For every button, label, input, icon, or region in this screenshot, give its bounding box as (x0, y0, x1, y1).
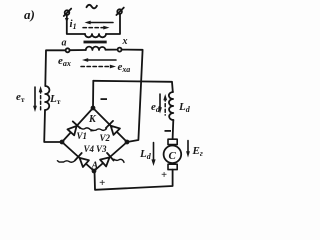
inductor L_t (45, 86, 49, 110)
svg-text:ет: ет (16, 91, 25, 104)
label V1 (77, 131, 88, 141)
label K (cathode group) (88, 114, 97, 125)
transformer primary winding (85, 34, 106, 37)
terminal right (plug) (117, 9, 122, 14)
svg-text:А: А (91, 161, 99, 172)
wire edge left-top (62, 108, 93, 142)
wire: left terminal down to primary (67, 15, 85, 34)
transformer core (84, 41, 107, 44)
arrow dashed right (83, 26, 110, 30)
AC source symbol ~ (87, 5, 97, 8)
label V4 (84, 144, 95, 154)
transformer secondary winding (86, 47, 106, 50)
svg-text:i1: i1 (70, 18, 77, 31)
label A (anode group) (91, 161, 99, 172)
arrow solid left (power direction) (85, 21, 114, 25)
thyristor V3 (100, 153, 124, 167)
svg-text:Lт: Lт (49, 93, 61, 106)
arrow e_d solid down (158, 94, 162, 114)
arrow e_d dashed up (163, 94, 167, 115)
label minus top (101, 98, 108, 100)
terminal x (118, 48, 122, 52)
thyristor V1 (68, 121, 94, 135)
svg-text:еха: еха (118, 61, 131, 74)
machine C (DC generator) (164, 146, 182, 164)
svg-text:С: С (169, 150, 177, 162)
current I_d arrow (151, 143, 155, 167)
svg-text:V2: V2 (100, 133, 111, 143)
wire edge top-right (93, 108, 127, 142)
node left (60, 140, 65, 145)
label e_xa (118, 61, 131, 74)
svg-text:х: х (122, 36, 128, 47)
label e_ax (58, 55, 71, 68)
node top (-) (91, 106, 96, 111)
terminal left (plug) (65, 10, 70, 15)
wire edge bottom-right (94, 142, 127, 171)
machine brush top (168, 139, 177, 144)
svg-text:Ld: Ld (178, 101, 191, 114)
svg-text:Ld: Ld (139, 148, 152, 161)
wire: top node up (92, 81, 94, 108)
node right (125, 140, 130, 145)
label i1 (70, 18, 77, 31)
label V3 (96, 144, 107, 154)
terminal a (66, 48, 70, 52)
wire: L_d to machine (172, 120, 175, 139)
label plus at bridge (99, 177, 105, 189)
label V2 (100, 133, 111, 143)
svg-text:а: а (62, 38, 67, 49)
wire: top dc rail to L_d (93, 81, 173, 92)
machine brush bottom (168, 164, 177, 169)
wire: x terminal right and down to right node (122, 50, 143, 142)
arrow e_t solid down (33, 87, 37, 112)
wire: primary right to right terminal (106, 14, 120, 34)
wire edge left-bottom (62, 142, 94, 171)
arrow E_g down (186, 141, 190, 158)
svg-text:К: К (88, 114, 97, 125)
thyristor V4 (57, 153, 89, 167)
arrow e_xa dashed right (81, 65, 116, 69)
svg-text:Ег: Ег (192, 145, 203, 158)
label x (122, 36, 128, 47)
arrow e_t dashed up (39, 86, 43, 111)
svg-text:+: + (161, 170, 167, 181)
label e_t (16, 91, 25, 104)
svg-text:а): а) (24, 7, 35, 22)
wire: L_t down to bridge left node (44, 110, 62, 142)
label L_d coil (178, 101, 191, 114)
wire: machine bottom to lower rail (95, 170, 173, 190)
svg-text:V4: V4 (84, 144, 95, 154)
label a (62, 38, 67, 49)
label plus at machine (161, 170, 167, 181)
svg-text:еах: еах (58, 55, 71, 68)
label а) (24, 7, 35, 22)
label I_d (139, 148, 152, 161)
svg-text:+: + (99, 177, 105, 189)
arrow e_ax solid left (82, 58, 116, 62)
label e_d (151, 101, 161, 114)
current i1 arrowhead (65, 18, 69, 23)
label L_t (49, 93, 61, 106)
thyristor V2 (91, 121, 120, 135)
label minus at machine (165, 130, 172, 132)
svg-text:V1: V1 (77, 131, 88, 141)
wire: terminal a left and down to L_t (45, 50, 65, 86)
node bottom (+) (92, 169, 97, 174)
svg-text:V3: V3 (96, 144, 107, 154)
inductor L_d (169, 92, 174, 120)
label E_g (192, 145, 203, 158)
